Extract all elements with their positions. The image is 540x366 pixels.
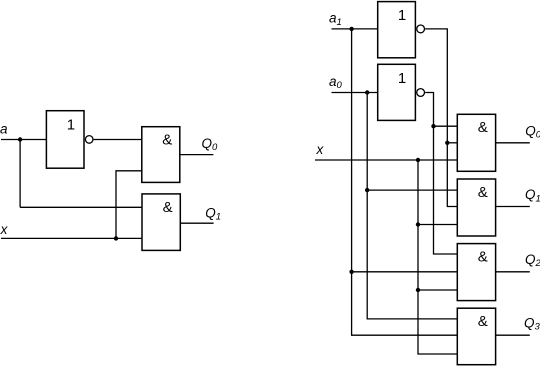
inverter U4 bubble <box>417 25 425 33</box>
wire a branch to AND2 in1 <box>20 206 142 208</box>
wire a branch down <box>19 140 21 208</box>
wire x branch to AND-Q2 in3 <box>418 289 457 291</box>
svg-text:a: a <box>0 121 8 136</box>
wire Q2 output right <box>496 271 530 273</box>
svg-text:1: 1 <box>398 7 406 24</box>
junction a1/Q2 <box>349 270 353 274</box>
wire x branch to AND-Q1 in3 <box>418 224 457 226</box>
inverter U1 (left "1" gate) <box>46 111 84 169</box>
wire a0 down then to AND-Q3 in1 <box>367 93 457 319</box>
junction a <box>18 137 22 141</box>
wire a1 down with branch to AND-Q2 in2 then to AND-Q3 in2 <box>352 29 458 335</box>
junction a0/Q1 <box>365 188 369 192</box>
junction x right <box>416 158 420 162</box>
wire Q1 output right <box>496 206 530 208</box>
wire a1 input <box>332 28 378 30</box>
inverter U5 (second "1" gate) <box>378 64 416 120</box>
svg-text:&: & <box>478 184 488 201</box>
wire Q1 output left <box>180 222 213 224</box>
and-gate U8 (right "&" Q2) <box>457 244 495 301</box>
wire a1 branch to AND-Q2 in2 <box>352 271 458 273</box>
and-gate U6 (right "&" Q0) <box>457 114 495 171</box>
junction x left <box>114 236 118 240</box>
svg-text:x: x <box>0 222 9 237</box>
junction a1 <box>349 27 353 31</box>
wire x input left <box>1 237 142 239</box>
junction /a0 to AND-Q0 in1 <box>431 124 435 128</box>
wire U1 out to AND1 in1 <box>94 139 142 141</box>
wire a0 branch to AND-Q1 in1 <box>367 189 457 191</box>
wire /a1 to AND-Q1 in2 <box>425 29 457 207</box>
svg-text:1: 1 <box>398 70 406 87</box>
svg-text:&: & <box>478 249 488 266</box>
wire a input <box>1 139 46 141</box>
wire x down then to AND-Q3 in3 <box>418 160 457 354</box>
and-gate U7 (right "&" Q1) <box>457 179 495 236</box>
svg-text:1: 1 <box>67 116 75 133</box>
inverter U1 bubble <box>85 136 93 144</box>
wire Q3 output right <box>496 334 530 336</box>
svg-text:&: & <box>163 199 173 216</box>
wire /a0 branch to AND-Q0 in1 <box>434 125 458 127</box>
svg-text:x: x <box>316 142 325 157</box>
wire x branch up to AND1 in2 <box>116 171 142 239</box>
svg-text:&: & <box>478 313 488 330</box>
wire /a0 down to AND-Q2 in1 <box>425 93 457 255</box>
svg-text:&: & <box>478 119 488 136</box>
and-gate U3 (left bottom "&" gate) <box>142 194 180 251</box>
svg-text:&: & <box>162 132 172 149</box>
wire /a1 branch to AND-Q0 in2 <box>447 142 457 144</box>
wire Q0 output left <box>180 154 214 156</box>
wire x input right <box>315 159 457 161</box>
wire Q0 output right <box>496 142 530 144</box>
and-gate U2 (left top "&" gate) <box>142 127 180 183</box>
wire a0 input <box>332 92 379 94</box>
inverter U4 (top "1" gate) <box>378 2 416 58</box>
junction a0 <box>365 90 369 94</box>
junction x/Q2 <box>416 288 420 292</box>
junction x/Q1 <box>416 222 420 226</box>
inverter U5 bubble <box>417 89 425 97</box>
and-gate U9 (right "&" Q3) <box>457 308 495 365</box>
junction /a1 to AND-Q0 in2 <box>445 141 449 145</box>
